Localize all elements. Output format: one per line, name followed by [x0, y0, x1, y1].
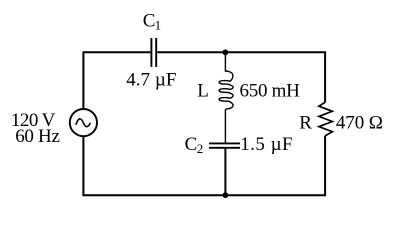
svg-text:470 Ω: 470 Ω: [336, 112, 383, 133]
svg-text:L: L: [197, 80, 209, 101]
svg-text:1: 1: [155, 18, 162, 33]
svg-text:60 Hz: 60 Hz: [15, 126, 60, 147]
svg-text:2: 2: [197, 141, 204, 156]
svg-text:650 mH: 650 mH: [240, 80, 301, 101]
svg-text:C: C: [185, 134, 198, 155]
svg-text:R: R: [299, 112, 312, 133]
svg-text:C: C: [143, 11, 156, 32]
svg-text:4.7 µF: 4.7 µF: [126, 69, 176, 90]
svg-text:1.5 µF: 1.5 µF: [240, 134, 292, 155]
